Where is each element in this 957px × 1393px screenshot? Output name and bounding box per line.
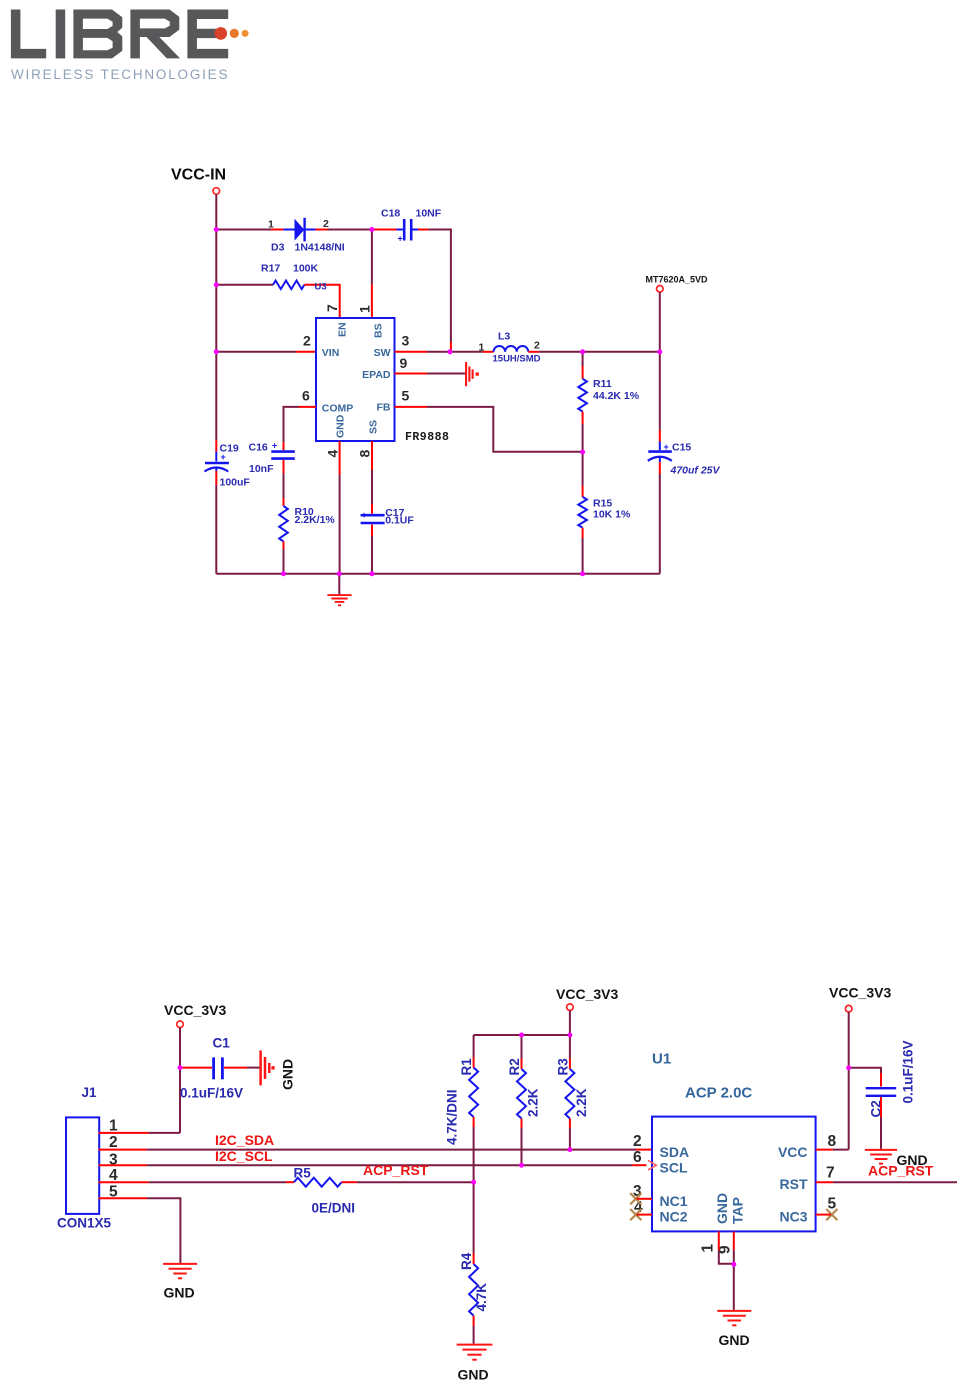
capacitor C18 [397,219,419,241]
svg-text:SDA: SDA [660,1144,690,1160]
svg-text:I2C_SDA: I2C_SDA [215,1132,274,1148]
svg-text:SW: SW [374,347,391,359]
wire R4 to ground [473,1316,475,1326]
svg-text:8: 8 [828,1133,837,1150]
svg-text:R1: R1 [459,1058,474,1076]
Libre Wireless Technologies logo [11,10,228,59]
svg-text:ACP_RST: ACP_RST [363,1162,429,1178]
ground at rail [327,595,351,605]
resistor R17 [273,281,304,290]
svg-text:RST: RST [780,1176,808,1192]
svg-text:VIN: VIN [322,347,340,359]
power pin VCC_3V3 (U1) [845,1005,852,1012]
logo dots [215,27,228,40]
svg-text:U3: U3 [315,281,327,292]
resistor R4 [473,1182,475,1253]
diode D3 [283,218,315,242]
svg-text:1N4148/NI: 1N4148/NI [295,242,345,254]
wire C16 to R10 [283,460,285,474]
junction rail / R3 / VCC [567,1033,572,1038]
svg-text:GND: GND [335,414,347,438]
svg-text:100uF: 100uF [220,477,251,489]
svg-text:SCL: SCL [660,1160,688,1176]
junction BS node [369,227,374,232]
power pin VCC_3V3 (J1) [177,1021,184,1028]
capacitor C1 [214,1057,223,1079]
ground at C2 [865,1150,897,1164]
connector J1 [66,1117,99,1214]
resistor R5 [294,1178,342,1187]
svg-text:VCC_3V3: VCC_3V3 [164,1002,226,1018]
svg-text:10NF: 10NF [416,208,442,220]
svg-text:1: 1 [357,305,373,313]
svg-text:15UH/SMD: 15UH/SMD [493,354,541,365]
power pin VCC_3V3 (pull-ups) [567,1004,574,1011]
svg-text:NC3: NC3 [779,1209,807,1225]
svg-text:8: 8 [357,450,373,458]
svg-text:1: 1 [268,219,274,231]
wire VCC_3V3 down to VCC pin [848,1012,850,1150]
wire COMP pin [299,406,316,408]
svg-text:C18: C18 [381,208,400,220]
wire top row (VCC-IN to D3 anode) [216,229,271,231]
junction VCC-IN / VIN [214,349,219,354]
junction rail / R2 [519,1033,524,1038]
svg-text:NC2: NC2 [660,1209,688,1225]
resistor R10 [279,506,288,542]
junction VCC_3V3 / C1 [178,1065,183,1070]
no-connect X at NC3 [826,1209,837,1220]
no-connect X at NC1 [630,1193,641,1204]
wire RST pin to ACP_RST [816,1181,833,1183]
wire BS vertical [371,230,373,285]
wire ground rail (bottom of top circuit) [216,573,660,575]
svg-text:2.2K: 2.2K [574,1088,589,1117]
junction U1 ground node [731,1262,736,1267]
wire R10 to ground rail [283,542,285,550]
wire branch to C2 [849,1068,881,1073]
wire C17 to ground rail [371,525,373,537]
resistor R1 [473,1035,475,1058]
svg-text:GND: GND [714,1193,730,1224]
svg-text:0.1UF: 0.1UF [385,515,414,527]
junction output / R11 [580,349,585,354]
ground at J1 pin5 [163,1264,197,1278]
svg-text:+: + [664,442,669,452]
svg-text:GND: GND [458,1367,489,1383]
wire R17 to EN pin [304,285,339,318]
capacitor C2 [866,1088,897,1096]
svg-text:C16: C16 [249,442,268,454]
inductor L3 [494,346,529,352]
svg-text:R3: R3 [556,1058,571,1076]
resistor R2 [521,1035,523,1059]
svg-text:10nF: 10nF [249,463,274,475]
junction rail / C17 [369,571,374,576]
svg-text:+: + [221,452,226,462]
svg-text:COMP: COMP [322,403,354,415]
junction rail / R15 [580,571,585,576]
svg-text:CON1X5: CON1X5 [57,1216,112,1231]
svg-text:GND: GND [280,1059,296,1090]
svg-text:L3: L3 [498,331,510,343]
svg-text:0E/DNI: 0E/DNI [312,1201,356,1216]
svg-text:4.7K/DNI: 4.7K/DNI [445,1089,460,1145]
junction VCC-IN / D3 [214,227,219,232]
capacitor C16 [271,452,295,459]
wire D3 cathode to BS node [316,229,328,231]
svg-text:C15: C15 [672,442,691,454]
wire R2 down to SCL [521,1119,523,1129]
resistor R3 [569,1035,571,1059]
junction FB node [580,450,585,455]
svg-text:+: + [272,441,277,451]
IC U1 ACP 2.0C [652,1117,816,1232]
junction output / C15 [657,349,662,354]
wire VCC-IN to VIN pin [216,351,296,353]
wire C15 to ground rail [659,462,661,474]
wire VCC_3V3 to C1 [180,1067,212,1069]
capacitor C15 [648,442,672,463]
wire J1 pin5 to ground [99,1197,148,1199]
svg-text:SS: SS [368,420,380,434]
svg-text:R4: R4 [459,1252,474,1270]
svg-text:+: + [398,234,403,244]
svg-text:WIRELESS TECHNOLOGIES: WIRELESS TECHNOLOGIES [11,67,229,82]
wire NC1 stub [637,1198,653,1200]
svg-text:7: 7 [826,1165,835,1182]
svg-text:5: 5 [402,388,410,404]
svg-text:2: 2 [109,1134,118,1151]
svg-text:VCC_3V3: VCC_3V3 [556,986,618,1002]
svg-text:470uf 25V: 470uf 25V [670,465,721,477]
wire R11 to FB node [582,412,584,425]
wire SW node down to R11 [582,352,584,366]
svg-text:NC1: NC1 [660,1193,688,1209]
svg-text:R17: R17 [261,263,280,275]
svg-text:6: 6 [302,388,310,404]
wire pull-up rail [474,1034,570,1036]
wire VCC-IN to R17 [216,284,273,286]
junction VCC-IN / R17 [214,282,219,287]
wire GND/TAP pins to ground [718,1231,720,1250]
svg-text:VCC_3V3: VCC_3V3 [829,985,891,1001]
svg-text:44.2K 1%: 44.2K 1% [593,390,640,402]
wire C1 to ground [224,1067,247,1069]
svg-text:10K 1%: 10K 1% [593,509,631,521]
wire VCC_3V3 down to pin1 [179,1028,181,1133]
svg-text:7: 7 [324,304,340,312]
wire output node vertical [659,292,661,430]
svg-text:BS: BS [373,323,385,338]
svg-text:2: 2 [534,340,540,352]
svg-text:+: + [362,510,367,520]
svg-text:U1: U1 [652,1051,671,1068]
svg-text:100K: 100K [293,263,319,275]
svg-text:C1: C1 [213,1036,231,1051]
ground at U1 TAP [717,1311,751,1325]
svg-text:1: 1 [700,1244,717,1253]
svg-text:R11: R11 [593,378,612,390]
wire NC2 stub [637,1214,653,1216]
IC U3 FR9888 [316,318,395,441]
svg-text:R5: R5 [294,1166,312,1181]
junction SDA / R3 [567,1147,572,1152]
svg-text:FB: FB [377,402,391,414]
svg-text:GND: GND [164,1285,195,1301]
svg-text:VCC-IN: VCC-IN [171,167,226,184]
svg-text:0.1uF/16V: 0.1uF/16V [901,1040,916,1103]
svg-text:EN: EN [337,322,349,337]
ground at EPAD [466,362,479,386]
svg-text:ACP 2.0C: ACP 2.0C [685,1085,752,1102]
no-connect X at NC2 [630,1209,641,1220]
svg-text:GND: GND [719,1332,750,1348]
wire ACP_RST row (J1 pin4 to R5) [99,1181,149,1183]
svg-text:4.7K: 4.7K [474,1283,489,1312]
svg-text:2.2K: 2.2K [526,1088,541,1117]
wire R1 down to reset node [473,1117,475,1127]
svg-text:GND: GND [897,1152,928,1168]
svg-text:9: 9 [400,355,408,371]
svg-text:I2C_SCL: I2C_SCL [215,1148,273,1164]
junction VCC_3V3 / C2 [846,1065,851,1070]
svg-text:4: 4 [325,450,341,458]
wire BS node to C18 [372,229,397,231]
wire R3 down to SDA [569,1119,571,1129]
wire EPAD pin [395,373,428,375]
wire VCC_3V3 to rail [569,1011,571,1036]
power pin VCC-IN [213,188,220,195]
junction SCL / R2 [519,1163,524,1168]
wire FB node to R15 [582,452,584,486]
wire GND pin of U3 [339,441,341,475]
svg-text:2: 2 [323,218,329,230]
capacitor C17 [361,515,385,523]
svg-text:J1: J1 [82,1085,98,1100]
SCL pin arrow [648,1160,656,1170]
wire SS pin of U3 [371,441,373,470]
svg-text:1: 1 [479,342,485,354]
svg-text:VCC: VCC [778,1144,808,1160]
ground at C1 [261,1050,275,1085]
svg-text:R2: R2 [507,1058,522,1075]
wire R15 to ground rail [582,528,584,538]
junction rail / GND pin [337,571,342,576]
svg-text:2: 2 [633,1133,642,1150]
wire C2 to ground [880,1097,882,1117]
wire VCC-IN vertical [215,194,217,440]
wire L3 to output node [528,351,538,353]
svg-text:FR9888: FR9888 [405,431,449,444]
wire C18 to SW node [418,229,428,231]
junction reset node [471,1180,476,1185]
wire I2C_SCL row [99,1164,147,1166]
svg-text:3: 3 [402,333,410,349]
wire J1 pin1 to VCC_3V3 [99,1132,149,1134]
svg-text:TAP: TAP [730,1197,746,1224]
wire FB pin to divider [395,406,428,408]
wire VCC pin to 3V3 [816,1149,833,1151]
svg-text:6: 6 [633,1149,642,1166]
wire SW pin to L3 [395,351,428,353]
wire ground stem [338,574,340,595]
power pin MT7620A_5VD [657,286,664,293]
svg-text:2: 2 [303,333,311,349]
wire NC3 stub [816,1214,831,1216]
wire I2C_SDA row [99,1149,147,1151]
resistor R15 [578,497,587,528]
ground at R4 [457,1345,493,1360]
svg-text:2.2K/1%: 2.2K/1% [295,514,336,526]
svg-text:MT7620A_5VD: MT7620A_5VD [646,275,709,285]
svg-text:0.1uF/16V: 0.1uF/16V [180,1086,243,1101]
svg-text:D3: D3 [271,242,285,254]
wire R5 to reset node [342,1181,357,1183]
resistor R11 [578,379,587,412]
junction SW node / C18 [448,349,453,354]
capacitor C19 [205,452,229,472]
svg-text:EPAD: EPAD [362,369,391,381]
junction rail / R10 [281,571,286,576]
